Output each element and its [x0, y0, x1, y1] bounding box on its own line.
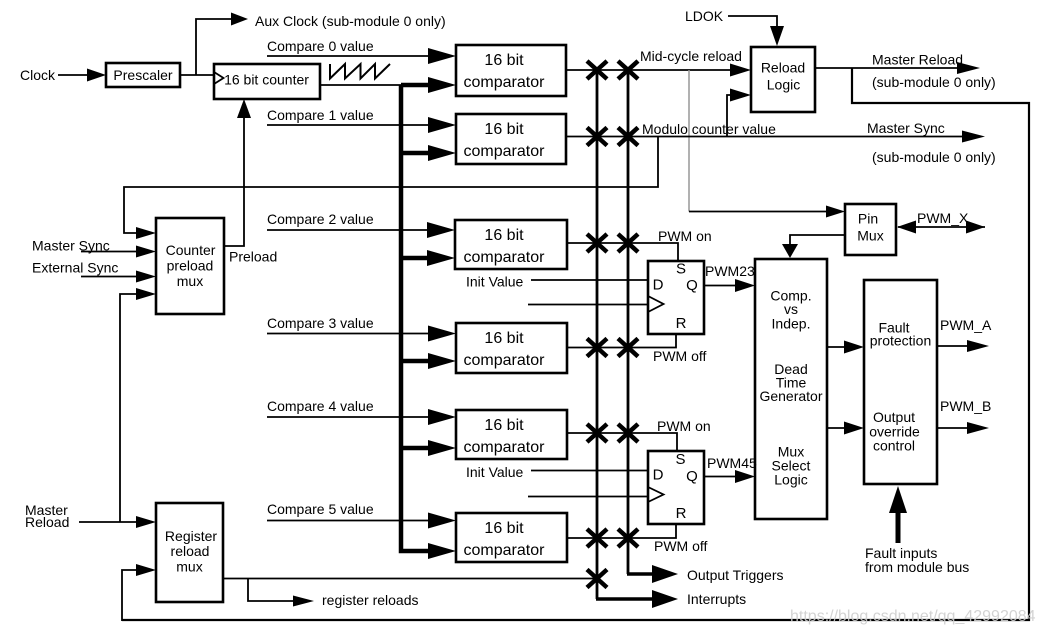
svg-text:Mid-cycle reload: Mid-cycle reload	[640, 48, 742, 64]
clock wedge on 16 bit counter	[214, 72, 224, 84]
svg-text:Counter: Counter	[166, 242, 216, 258]
block: 16 bit comparator 5	[456, 513, 567, 562]
wire: bus branch to comparator3 input	[401, 359, 430, 364]
block: Pin Mux	[845, 204, 896, 255]
wire: Master Reload output of Reload Logic	[815, 67, 958, 69]
wire: comparator0 output / Mid-cycle reload to Reload Logic	[566, 69, 731, 71]
wire: master reload feedback loop right and bottom	[122, 68, 1029, 620]
svg-text:Interrupts: Interrupts	[687, 591, 746, 607]
wire: PWM_A output	[937, 345, 969, 347]
arrowhead: into Pin Mux	[826, 206, 845, 218]
svg-text:PWM_B: PWM_B	[940, 398, 991, 414]
arrowhead: loop into Register reload mux input 2	[136, 564, 156, 576]
wire: Master Reload input to Register reload mux	[79, 521, 137, 523]
block: 16 bit comparator 4	[456, 410, 567, 459]
svg-text:(sub-module 0 only): (sub-module 0 only)	[872, 74, 996, 90]
wire: Preload from Counter preload mux to counter	[224, 117, 244, 246]
svg-text:Clock: Clock	[20, 67, 56, 83]
block: 16 bit comparator 3	[456, 323, 567, 373]
wire: interrupts vertical line	[596, 70, 599, 599]
svg-text:Master Sync: Master Sync	[867, 120, 945, 136]
arrowhead: PWM_X left toward Pin Mux	[897, 221, 916, 234]
wire: LDOK line into Reload Logic	[728, 16, 777, 27]
wire: line into Pin Mux input	[689, 211, 828, 213]
X mark row 0 left	[587, 61, 607, 79]
wire: PWM23 from flip-flop 1 Q	[704, 285, 737, 287]
arrowhead: Master Sync output	[962, 131, 985, 143]
svg-text:16 bit: 16 bit	[484, 227, 524, 244]
X mark row 5 left	[587, 529, 607, 547]
arrowhead: Clock into Prescaler	[87, 69, 106, 82]
arrowhead: Mid-cycle reload into Reload Logic	[730, 64, 751, 77]
svg-text:D: D	[653, 277, 664, 294]
arrowhead: PWM_A	[967, 340, 989, 352]
block: Prescaler	[106, 63, 180, 87]
arrowhead: LDOK down into Reload Logic	[770, 26, 784, 46]
svg-text:Init Value: Init Value	[466, 274, 524, 290]
arrowhead: Output Triggers	[652, 565, 678, 583]
svg-text:preload: preload	[167, 258, 214, 274]
arrowhead: bus into comparator0	[428, 77, 456, 93]
svg-text:D: D	[653, 467, 664, 484]
sawtooth counter ramp symbol	[330, 64, 390, 79]
svg-text:Logic: Logic	[774, 472, 807, 488]
wire: Pin Mux output down to Comp vs Indep box	[790, 235, 845, 245]
arrowhead: bus into comparator1	[428, 145, 456, 161]
wire: Compare 2 value line	[267, 229, 428, 231]
wire: Compare 1 value line	[267, 124, 429, 126]
arrowhead: Master Reload output	[957, 62, 980, 74]
wire: Register reload mux output	[223, 578, 596, 580]
X mark row 3 right	[618, 339, 638, 357]
wire: clock line into flip-flop 1	[528, 304, 648, 306]
svg-text:Generator: Generator	[759, 388, 822, 404]
svg-text:PWM off: PWM off	[654, 538, 708, 554]
wire: counter output to bus	[320, 84, 401, 86]
X mark register reload row	[587, 570, 607, 588]
X mark row 4 right	[618, 424, 638, 442]
block: Fault protection / Output override control	[864, 280, 937, 484]
wire: bus branch to comparator1 input	[401, 151, 430, 156]
svg-text:16 bit: 16 bit	[484, 121, 524, 138]
arrowhead: Compare 5 value into comparator	[428, 513, 456, 529]
svg-text:Output Triggers: Output Triggers	[687, 567, 784, 583]
svg-text:comparator: comparator	[464, 542, 546, 559]
svg-text:Indep.: Indep.	[772, 316, 811, 332]
svg-text:reload: reload	[171, 543, 210, 559]
arrowhead: bus into comparator5	[428, 543, 456, 559]
X mark row 2 right	[618, 234, 638, 252]
arrowhead: Fault inputs up into box	[889, 486, 907, 513]
arrowhead: Aux Clock	[231, 13, 248, 26]
wire: PWM_X bidirectional line	[898, 226, 985, 228]
wire: bus branch to comparator2 input	[401, 256, 430, 261]
svg-text:mux: mux	[176, 559, 202, 575]
wire: Prescaler output to 16 bit counter	[180, 74, 214, 76]
wire: PWM45 from flip-flop 2 Q	[704, 476, 737, 478]
arrowhead: Master Sync into Counter preload mux	[136, 246, 156, 258]
wire: comparator4 output PWM on to flip-flop 2 S	[567, 433, 677, 451]
arrowhead: bus into comparator2	[427, 250, 455, 266]
wire: comparator2 output PWM on to flip-flop 1 S	[567, 243, 678, 261]
arrowhead: modulo into Counter preload mux input 1	[136, 227, 156, 239]
svg-text:Preload: Preload	[229, 249, 277, 265]
arrowhead: modulo value into Reload Logic	[730, 89, 751, 102]
arrowhead: into Output override control	[844, 422, 864, 435]
svg-text:comparator: comparator	[464, 439, 546, 456]
block: 16 bit counter	[214, 64, 320, 99]
arrowhead: PWM45 into Mux Select Logic	[735, 470, 755, 483]
wire: fault inputs bold stem	[896, 513, 901, 543]
svg-text:control: control	[873, 438, 915, 454]
svg-text:mux: mux	[177, 273, 203, 289]
svg-text:Modulo counter value: Modulo counter value	[642, 121, 776, 137]
X mark row 0 right	[618, 61, 638, 79]
wire: dead time generator to fault protection	[827, 346, 846, 348]
block: 16 bit comparator 0	[456, 45, 566, 96]
arrowhead: PWM_B	[967, 422, 989, 434]
svg-text:Q: Q	[686, 468, 698, 485]
wire: comparator5 output PWM off to flip-flop 2 R	[567, 524, 676, 538]
arrowhead: Compare 3 value into comparator	[428, 326, 456, 342]
wire: Compare 5 value line	[267, 520, 429, 522]
arrowhead: bus into comparator4	[428, 440, 456, 456]
wire: Master Sync into Counter preload mux input 2	[81, 251, 137, 253]
arrowhead: Interrupts	[652, 590, 678, 608]
X mark row 5 right	[618, 529, 638, 547]
wire: interrupts horizontal stem	[596, 597, 654, 601]
svg-text:Compare 1 value: Compare 1 value	[267, 107, 374, 123]
svg-text:PWM_X: PWM_X	[917, 210, 969, 226]
wire: clock line into flip-flop 2	[528, 496, 648, 498]
arrowhead: Compare 4 value into comparator	[428, 409, 456, 425]
svg-text:PWM23: PWM23	[705, 263, 755, 279]
svg-text:Aux Clock (sub-module 0 only): Aux Clock (sub-module 0 only)	[255, 13, 446, 29]
wire: Compare 0 value line	[267, 55, 429, 57]
arrowhead: PWM23 into Comp vs Indep	[735, 279, 755, 292]
wire: dead time generator to output override	[827, 427, 846, 429]
block: Comp vs Indep / Dead Time Generator / Mux Select Logic	[755, 259, 827, 519]
arrowhead: Compare 0 value into comparator	[428, 48, 456, 64]
block: 16 bit comparator 2	[455, 220, 567, 269]
svg-text:Compare 2 value: Compare 2 value	[267, 211, 374, 227]
svg-text:Compare 4 value: Compare 4 value	[267, 398, 374, 414]
wire: Init Value into flip-flop 1 D	[531, 279, 648, 281]
block: Counter preload mux	[156, 218, 224, 314]
wire: External Sync into Counter preload mux input 3	[81, 276, 137, 278]
svg-text:Prescaler: Prescaler	[113, 67, 172, 83]
wire: modulo value to Counter preload mux input 1	[124, 137, 658, 234]
svg-text:Reload: Reload	[761, 60, 805, 76]
svg-text:R: R	[676, 315, 687, 332]
arrowhead: register reloads	[293, 596, 314, 607]
wire: Clock input to Prescaler	[58, 74, 88, 76]
svg-text:protection: protection	[870, 333, 931, 349]
block: flip-flop U2 PWM45	[648, 451, 704, 524]
wire: Aux Clock branch	[196, 19, 232, 75]
arrowhead: bus into comparator3	[428, 353, 456, 369]
svg-text:Compare 3 value: Compare 3 value	[267, 315, 374, 331]
svg-text:comparator: comparator	[464, 352, 546, 369]
block: flip-flop U1 PWM23	[648, 261, 704, 334]
svg-text:Q: Q	[686, 277, 698, 294]
svg-text:Init Value: Init Value	[466, 464, 524, 480]
arrowhead: Master Reload into Register reload mux	[136, 516, 156, 528]
svg-text:Mux: Mux	[857, 228, 883, 244]
arrowhead: Compare 2 value into comparator	[427, 222, 455, 238]
svg-text:comparator: comparator	[464, 74, 546, 91]
wire: master reload branch up to Counter preload mux input 4	[120, 294, 137, 522]
wire: register reloads branch	[248, 579, 294, 602]
svg-text:register reloads: register reloads	[322, 592, 419, 608]
svg-text:(sub-module 0 only): (sub-module 0 only)	[872, 149, 996, 165]
wire: Init Value into flip-flop 2 D	[531, 470, 648, 472]
wire: output triggers horizontal stem	[627, 572, 654, 576]
wire: comparator1 output / Modulo counter value / Master Sync	[566, 136, 964, 138]
svg-text:Logic: Logic	[767, 77, 800, 93]
wire: bottom loop into Register reload mux input 2	[122, 570, 137, 621]
X mark row 3 left	[587, 339, 607, 357]
svg-text:Reload: Reload	[25, 514, 69, 530]
svg-text:comparator: comparator	[464, 249, 546, 266]
X mark row 4 left	[587, 424, 607, 442]
wire: bus branch to comparator0 input	[401, 83, 430, 88]
svg-text:16 bit counter: 16 bit counter	[224, 72, 309, 88]
arrowhead: Compare 1 value into comparator	[428, 117, 456, 133]
svg-text:PWM on: PWM on	[658, 228, 712, 244]
wire: gray tap from mid-cycle reload down to Pin Mux level	[688, 70, 690, 212]
block: 16 bit comparator 1	[456, 114, 566, 164]
svg-text:PWM_A: PWM_A	[940, 317, 992, 333]
svg-text:PWM off: PWM off	[653, 348, 707, 364]
svg-text:Compare 0 value: Compare 0 value	[267, 38, 374, 54]
arrowhead: Pin Mux down into Comp vs Indep	[782, 244, 798, 258]
wire: Compare 3 value line	[267, 333, 429, 335]
clock wedge on flip-flop U2	[648, 487, 664, 502]
svg-text:Compare 5 value: Compare 5 value	[267, 501, 374, 517]
svg-text:16 bit: 16 bit	[484, 330, 524, 347]
svg-text:R: R	[676, 505, 687, 522]
svg-text:LDOK: LDOK	[685, 8, 724, 24]
svg-text:16 bit: 16 bit	[484, 417, 524, 434]
block: Register reload mux	[156, 503, 223, 602]
arrowhead: master reload into Counter preload mux input 4	[136, 288, 156, 300]
arrowhead: External Sync into Counter preload mux	[136, 271, 156, 283]
wire: Compare 4 value line	[267, 416, 429, 418]
svg-text:Master Sync: Master Sync	[32, 238, 110, 254]
block: Reload Logic	[751, 47, 815, 112]
arrowhead: into Fault protection	[844, 341, 864, 354]
wire: output triggers vertical line	[627, 70, 630, 574]
wire: bus branch to comparator4 input	[401, 446, 430, 451]
wire: comparator3 output PWM off to flip-flop 1 R	[567, 334, 676, 348]
X mark row 1 right	[618, 128, 638, 146]
svg-text:Master Reload: Master Reload	[872, 52, 963, 68]
svg-text:S: S	[676, 261, 686, 278]
svg-text:S: S	[675, 451, 685, 468]
svg-text:Pin: Pin	[858, 211, 878, 227]
svg-text:External Sync: External Sync	[32, 260, 118, 276]
wire: counter value bus (bold)	[401, 85, 430, 551]
svg-text:https://blog.csdn.net/qq_42992: https://blog.csdn.net/qq_42992084	[790, 608, 1036, 625]
clock wedge on flip-flop U1	[648, 296, 664, 312]
svg-text:Register: Register	[165, 528, 217, 544]
svg-text:16 bit: 16 bit	[484, 520, 524, 537]
svg-text:16 bit: 16 bit	[484, 52, 524, 69]
X mark row 2 left	[587, 234, 607, 252]
svg-text:PWM on: PWM on	[657, 418, 711, 434]
arrowhead: Preload up into counter	[237, 99, 251, 118]
arrowhead: PWM_X right	[966, 221, 985, 234]
svg-text:from module bus: from module bus	[865, 559, 969, 575]
svg-text:comparator: comparator	[464, 143, 546, 160]
svg-text:PWM45: PWM45	[707, 455, 757, 471]
X mark row 1 left	[587, 128, 607, 146]
wire: PWM_B output	[937, 427, 969, 429]
wire: modulo value up into Reload Logic second input	[727, 95, 732, 137]
